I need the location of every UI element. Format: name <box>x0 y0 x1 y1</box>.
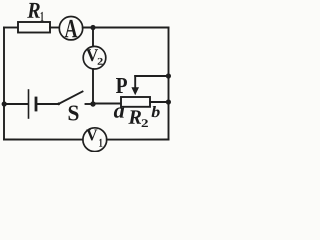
wire V2 lower lead <box>92 69 94 104</box>
wire V2 upper lead <box>92 28 94 47</box>
node left junction <box>2 101 7 106</box>
wire left vertical <box>3 28 5 140</box>
voltmeter V2 <box>83 46 106 69</box>
wire ammeter to top-right corner <box>83 27 169 29</box>
wire R1 to ammeter <box>50 27 59 29</box>
switch S blade <box>59 92 83 105</box>
node switch pivot <box>57 102 60 105</box>
wire slider horizontal <box>135 75 168 77</box>
ammeter A <box>59 17 82 40</box>
node slider-right junction <box>166 73 171 78</box>
rheostat R2 body <box>121 97 150 107</box>
voltmeter V1 <box>83 128 107 152</box>
node b-right junction <box>166 99 171 104</box>
slider arrow shaft <box>134 76 136 88</box>
resistor R1 <box>18 22 50 33</box>
label b (terminal) <box>152 106 160 117</box>
slider arrowhead P <box>131 87 139 95</box>
label P (slider) <box>116 78 127 93</box>
label a (terminal) <box>114 107 124 117</box>
wire battery to switch <box>37 103 59 105</box>
label R2 <box>128 110 141 123</box>
battery long plate <box>28 90 30 118</box>
wire bottom-right segment <box>107 139 169 141</box>
label R1 <box>27 3 40 18</box>
label S (switch) <box>69 106 79 121</box>
wire top-left segment <box>4 27 18 29</box>
label V2 (voltmeter) <box>86 49 98 61</box>
label A (ammeter) <box>65 20 78 37</box>
node top junction <box>90 25 95 30</box>
battery short plate <box>35 98 38 110</box>
wire right vertical <box>168 28 170 140</box>
wire switch contact stub <box>86 103 94 105</box>
label V1 (voltmeter) <box>86 130 97 141</box>
wire junction to rheostat <box>93 103 121 105</box>
wire battery left <box>4 103 28 105</box>
node switch-rheostat junction <box>90 101 95 106</box>
wire rheostat b terminal <box>150 101 169 103</box>
wire bottom-left segment <box>4 139 83 141</box>
